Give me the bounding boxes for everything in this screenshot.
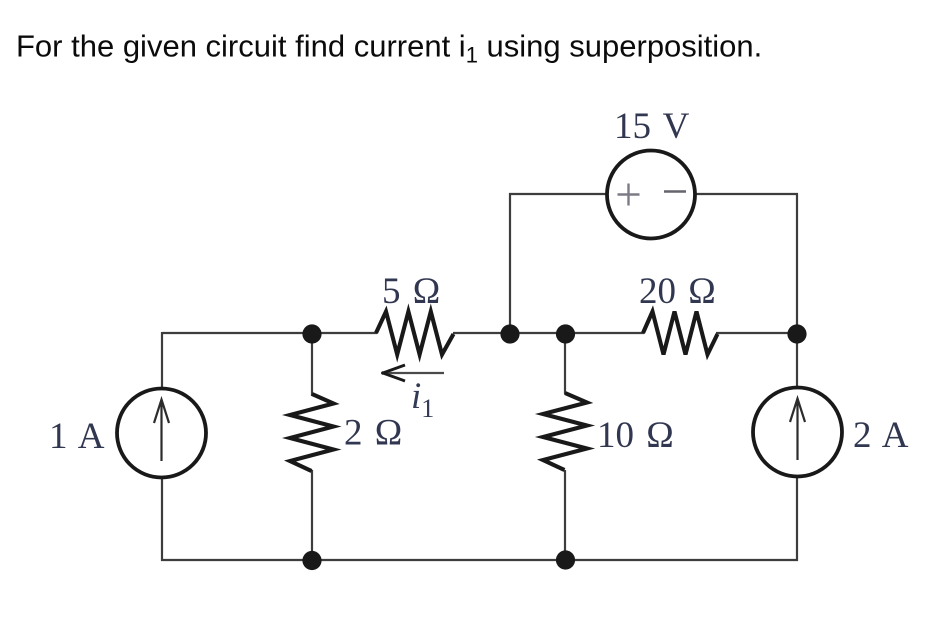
wire 2-ohm branch lower xyxy=(311,470,313,560)
node dot top B xyxy=(500,324,519,343)
wire top-left horizontal xyxy=(162,332,377,334)
resistor R 10-ohm (vertical zigzag) xyxy=(543,393,587,470)
voltage source V1 15V circle xyxy=(607,151,695,239)
wire left vertical lower xyxy=(161,476,163,561)
current i1 arrow xyxy=(382,365,445,381)
svg-text:i1: i1 xyxy=(411,376,434,423)
node dot top D xyxy=(787,324,806,343)
resistor R 2-ohm (vertical zigzag) xyxy=(290,394,334,471)
I2 arrow xyxy=(790,399,805,461)
wire 10-ohm branch upper xyxy=(564,334,566,394)
wire top-right horizontal xyxy=(716,332,798,334)
node dot top C xyxy=(556,324,575,343)
svg-text:20 Ω: 20 Ω xyxy=(639,271,716,312)
node dot bottom F xyxy=(556,550,575,569)
svg-text:10 Ω: 10 Ω xyxy=(597,415,674,456)
wire 15V branch left (up and across) xyxy=(510,194,608,332)
current source I2 2A circle xyxy=(753,388,842,477)
node dot top A xyxy=(302,324,321,343)
wire 2-ohm branch upper xyxy=(311,333,313,396)
current source I1 1A circle xyxy=(117,389,206,478)
wire 10-ohm branch lower xyxy=(564,470,566,560)
V1 minus terminal xyxy=(664,190,686,192)
node dot bottom E xyxy=(302,551,321,570)
wire 15V branch right (across and down) xyxy=(694,194,797,333)
svg-text:For the given circuit find cur: For the given circuit find current i1 us… xyxy=(16,29,762,68)
wire bottom horizontal xyxy=(161,559,798,561)
V1 plus terminal xyxy=(618,184,640,206)
svg-text:2 A: 2 A xyxy=(853,415,909,456)
svg-text:15 V: 15 V xyxy=(614,106,690,147)
wire top-middle horizontal xyxy=(453,332,644,334)
wire 2A branch upper xyxy=(796,333,798,390)
resistor R 20-ohm (horizontal zigzag) xyxy=(643,312,718,355)
wire left vertical upper xyxy=(161,332,163,390)
svg-text:2 Ω: 2 Ω xyxy=(344,413,402,454)
svg-text:5 Ω: 5 Ω xyxy=(382,271,440,312)
wire 2A branch lower xyxy=(796,475,798,561)
svg-text:1 A: 1 A xyxy=(49,416,105,457)
I1 arrow xyxy=(154,400,169,462)
resistor R 5-ohm (horizontal zigzag) xyxy=(376,312,454,355)
